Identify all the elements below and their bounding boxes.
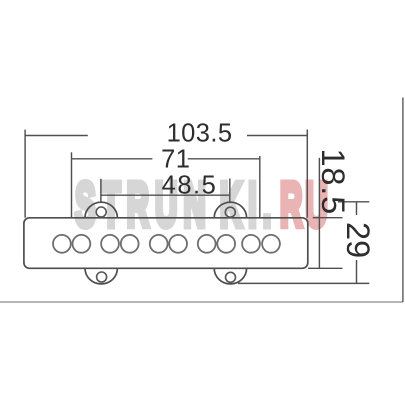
svg-text:18.5: 18.5 — [315, 149, 351, 215]
svg-text:29: 29 — [340, 222, 376, 258]
svg-text:KI.: KI. — [220, 172, 278, 240]
svg-text:71: 71 — [161, 146, 190, 174]
svg-text:48.5: 48.5 — [162, 172, 218, 200]
svg-text:103.5: 103.5 — [167, 120, 233, 148]
